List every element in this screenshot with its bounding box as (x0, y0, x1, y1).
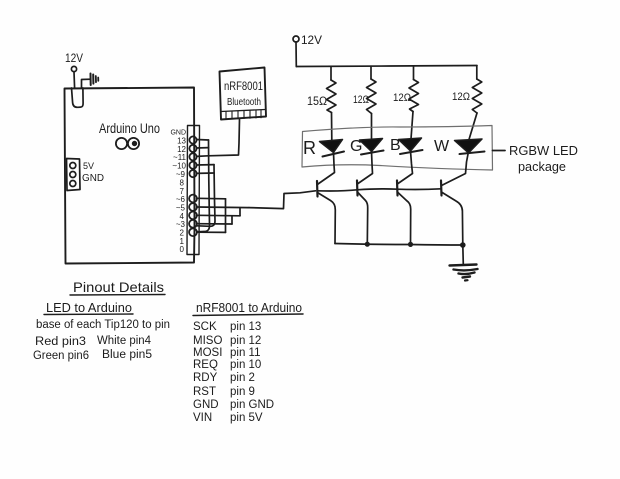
wire pin5 bus to transistor base (249, 191, 316, 209)
resistor R4 12ohm (476, 66, 478, 79)
digital pin header strip (187, 126, 200, 255)
ground symbol (450, 265, 477, 266)
svg-text:R: R (303, 138, 316, 158)
svg-text:15Ω: 15Ω (307, 94, 327, 108)
svg-text:0: 0 (180, 245, 185, 254)
svg-text:pin 12: pin 12 (230, 335, 261, 347)
wire pin6 box (197, 197, 226, 200)
12V supply label (Arduino) (65, 51, 83, 65)
svg-text:12V: 12V (65, 51, 83, 65)
nRF8001 module box (220, 68, 267, 120)
svg-text:12V: 12V (301, 33, 322, 47)
LED W (434, 138, 485, 155)
svg-text:Bluetooth: Bluetooth (227, 97, 261, 108)
LED G (350, 138, 384, 155)
svg-text:12Ω: 12Ω (393, 92, 411, 104)
svg-text:G: G (350, 138, 362, 155)
transistor Q1 (317, 153, 335, 244)
svg-text:GND: GND (82, 173, 104, 184)
LED to Arduino heading (46, 300, 132, 315)
svg-text:pin 2: pin 2 (230, 372, 255, 384)
svg-text:pin 5V: pin 5V (230, 412, 263, 424)
wire vertical connect 4-3 (231, 216, 233, 224)
transistor Q4 (441, 153, 468, 246)
svg-text:Blue pin5: Blue pin5 (102, 349, 152, 361)
pin labels (170, 130, 186, 255)
wire long loop2 down to pin3 (197, 165, 215, 227)
svg-text:MOSI: MOSI (193, 347, 222, 359)
svg-text:SCK: SCK (193, 321, 217, 333)
wire pin5 out (197, 206, 250, 209)
wire vertical connect 5-4 (239, 208, 241, 216)
nRF pin list (193, 321, 274, 424)
ground symbol (sideways) at barrel jack (82, 79, 91, 87)
svg-text:W: W (434, 138, 450, 155)
wire nRF8001 to pin bus (197, 120, 240, 157)
wire pin2 box (197, 231, 226, 233)
svg-text:base of each Tip120 to pin: base of each Tip120 to pin (36, 319, 170, 331)
+12V supply circle (293, 36, 299, 42)
svg-text:nRF8001: nRF8001 (224, 79, 263, 93)
transistor Q3 (397, 151, 413, 245)
wire 12V down to rail (295, 42, 297, 67)
LED R (303, 138, 344, 158)
svg-text:GND: GND (193, 399, 219, 411)
emitter rail (335, 244, 463, 246)
resistor R3 12ohm (413, 66, 415, 80)
LED B (390, 137, 423, 154)
Arduino infinity logo (116, 138, 139, 149)
wire pin12 bracket (197, 147, 209, 149)
svg-text:MISO: MISO (193, 335, 222, 347)
svg-text:REQ: REQ (193, 359, 218, 371)
barrel jack (72, 88, 84, 107)
Pinout Details title (73, 279, 164, 295)
12V terminal circle (71, 66, 76, 71)
svg-text:pin 13: pin 13 (230, 321, 261, 333)
nRF8001 pin connector hatching (221, 110, 265, 112)
svg-text:RGBW LED: RGBW LED (509, 143, 578, 158)
LED pinout lines (33, 319, 170, 362)
wire 12V to barrel jack (73, 72, 76, 88)
label pointer dash (493, 150, 506, 152)
wire pin3 box (197, 223, 233, 225)
svg-text:VIN: VIN (193, 412, 212, 424)
svg-text:White pin4: White pin4 (97, 335, 152, 347)
ground stem (462, 245, 465, 265)
transistor Q2 (357, 152, 373, 245)
svg-text:pin 11: pin 11 (230, 347, 260, 359)
wire pin9 to loop2 (197, 172, 215, 174)
svg-text:pin GND: pin GND (230, 399, 274, 411)
wire pin4 box (197, 214, 241, 217)
RGBW LED package outline (302, 126, 493, 171)
wire pin13 bracket (197, 139, 209, 142)
svg-text:pin 10: pin 10 (230, 359, 261, 371)
svg-text:LED to Arduino: LED to Arduino (46, 300, 132, 315)
Arduino Uno board outline (65, 88, 195, 264)
wire pin10 to loop2 (197, 164, 215, 166)
svg-text:B: B (390, 137, 401, 154)
junction dot Q3 (408, 242, 413, 247)
svg-text:pin 9: pin 9 (230, 386, 255, 398)
nRF8001 to Arduino heading (196, 300, 302, 315)
svg-text:RST: RST (193, 386, 216, 398)
svg-text:package: package (518, 159, 566, 174)
svg-text:Pinout Details: Pinout Details (73, 279, 164, 295)
svg-text:12Ω: 12Ω (452, 91, 470, 103)
base bus wire (317, 189, 441, 191)
resistor R1 15ohm (330, 66, 332, 80)
resistor R2 12ohm (370, 66, 372, 79)
svg-text:Red pin3: Red pin3 (35, 336, 86, 348)
svg-text:RDY: RDY (193, 372, 218, 384)
power connector (5V/GND) (67, 159, 81, 191)
svg-text:Green pin6: Green pin6 (33, 350, 89, 362)
junction dot Q2 (365, 242, 370, 247)
12V rail (296, 66, 477, 67)
svg-text:12Ω: 12Ω (353, 94, 369, 106)
junction dot ground (460, 242, 466, 248)
wire vertical connect 6-2 (225, 199, 227, 233)
wire long loop pin13/12 down to pin2 (197, 140, 210, 232)
pin hole circles (189, 136, 197, 236)
svg-text:nRF8001 to Arduino: nRF8001 to Arduino (196, 300, 302, 315)
svg-text:5V: 5V (83, 161, 94, 171)
svg-text:Arduino Uno: Arduino Uno (99, 120, 160, 136)
svg-text:GND: GND (170, 130, 186, 137)
Arduino Uno title (99, 120, 160, 136)
